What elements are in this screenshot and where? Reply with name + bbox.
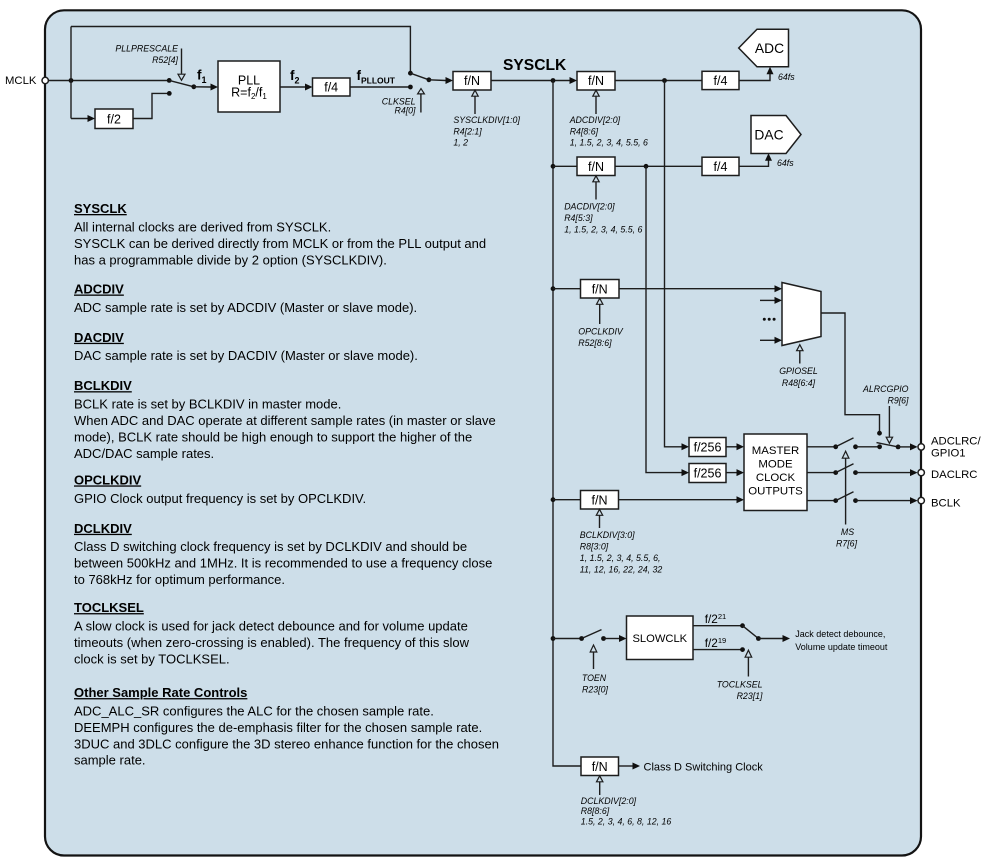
- junction OPCLK trunk tap: [551, 286, 556, 291]
- svg-text:sample rate.: sample rate.: [74, 753, 146, 768]
- wire into f/2: [71, 118, 88, 120]
- svg-text:All internal clocks are derive: All internal clocks are derived from SYS…: [74, 220, 331, 235]
- mux GPIOSEL trapezoid: [782, 283, 821, 346]
- label MS control: [836, 527, 858, 549]
- svg-text:between 500kHz and 1MHz. It is: between 500kHz and 1MHz. It is recommend…: [74, 556, 492, 571]
- junction TOEN trunk tap: [551, 636, 556, 641]
- svg-text:CLOCK: CLOCK: [756, 472, 796, 484]
- wire ADC branch to f/256: [665, 81, 683, 447]
- arrow to BCLK pin: [910, 497, 918, 504]
- wire ADCDIV to f/4: [615, 80, 702, 82]
- svg-text:SYSCLK: SYSCLK: [74, 201, 127, 216]
- svg-text:ALRCGPIO: ALRCGPIO: [862, 384, 909, 394]
- svg-text:TOCLKSEL: TOCLKSEL: [74, 600, 144, 615]
- arrow into f/256 lower: [682, 469, 690, 476]
- svg-text:DACLRC: DACLRC: [931, 469, 977, 481]
- wire trunk to BCLKDIV: [553, 499, 581, 501]
- switch ALRCGPIO lever: [877, 443, 899, 447]
- svg-text:MASTER: MASTER: [752, 445, 799, 457]
- svg-text:MCLK: MCLK: [5, 75, 37, 87]
- control line TOCLKSEL: [747, 657, 749, 676]
- wire trunk to DACDIV: [553, 165, 577, 167]
- svg-text:When ADC and DAC operate at di: When ADC and DAC operate at different sa…: [74, 413, 496, 428]
- svg-text:Class D switching clock freque: Class D switching clock frequency is set…: [74, 539, 467, 554]
- svg-text:ADC: ADC: [755, 41, 784, 56]
- svg-text:1, 1.5, 2, 3, 4, 5.5, 6: 1, 1.5, 2, 3, 4, 5.5, 6: [564, 224, 642, 234]
- control line DACDIV: [595, 182, 597, 200]
- svg-text:GPIO Clock output frequency is: GPIO Clock output frequency is set by OP…: [74, 491, 366, 506]
- arrow into ADCDIV divider: [570, 77, 578, 84]
- control arrow SYSCLKDIV open triangle up: [472, 90, 478, 96]
- node TOEN common: [601, 636, 606, 641]
- arrow into SLOWCLK: [619, 635, 627, 642]
- svg-text:BCLK: BCLK: [931, 498, 961, 510]
- note BCLKDIV body: [74, 397, 496, 461]
- svg-text:f/4: f/4: [714, 74, 728, 88]
- node MS pole DACLRC: [833, 470, 838, 475]
- control line TOEN: [593, 652, 595, 669]
- svg-text:1, 2: 1, 2: [453, 138, 468, 148]
- svg-text:Volume update timeout: Volume update timeout: [795, 642, 888, 652]
- arrow to ADCLRC pin: [910, 443, 918, 450]
- divider ADCDIV f/N: [577, 72, 615, 91]
- node TOCLKSEL pole lower: [740, 647, 745, 652]
- node CLKSEL MCLK pole: [408, 71, 413, 76]
- divider f/2: [95, 109, 133, 129]
- divider f/4 ADC: [702, 71, 739, 89]
- wire DAC branch to f/256: [646, 166, 682, 472]
- divider DACDIV f/N: [577, 157, 615, 176]
- svg-text:DACDIV[2:0]: DACDIV[2:0]: [564, 201, 615, 211]
- wire f/256 upper to master mode: [726, 446, 737, 448]
- arrow into f/256 upper: [682, 443, 690, 450]
- wire f/256 lower to master mode: [726, 472, 737, 474]
- svg-text:f/4: f/4: [324, 81, 338, 95]
- switch TOEN lever: [582, 630, 602, 639]
- wire PLL to f/4: [280, 86, 305, 88]
- wire mux output to ALRCGPIO switch: [821, 313, 880, 432]
- svg-text:R=f2/f1: R=f2/f1: [231, 86, 267, 102]
- arrow f/256 lower: [737, 469, 745, 476]
- node TOCLKSEL pole upper: [740, 623, 745, 628]
- control arrow ADCDIV open triangle up: [593, 90, 599, 96]
- wire SLOWCLK lower output: [693, 649, 743, 651]
- control arrow MS open triangle up: [842, 451, 849, 458]
- wire BCLK to pin: [856, 500, 911, 502]
- arrow jack detect: [783, 635, 791, 642]
- switch TOCLKSEL lever: [743, 626, 759, 639]
- wire BCLK out of master mode: [807, 500, 836, 502]
- svg-text:SLOWCLK: SLOWCLK: [632, 633, 687, 645]
- divider BCLKDIV f/N: [581, 491, 619, 510]
- wire DACDIV to f/4: [615, 165, 702, 167]
- svg-text:OPCLKDIV: OPCLKDIV: [578, 326, 624, 336]
- switch PLLPRESCALE lever: [169, 80, 194, 86]
- svg-text:MODE: MODE: [758, 458, 793, 470]
- node ALRCGPIO common: [896, 445, 901, 450]
- svg-text:GPIOSEL: GPIOSEL: [779, 366, 818, 376]
- svg-text:R4[5:3]: R4[5:3]: [564, 213, 593, 223]
- control line SYSCLKDIV: [474, 96, 476, 114]
- svg-text:Other Sample Rate Controls: Other Sample Rate Controls: [74, 685, 247, 700]
- svg-text:TOEN: TOEN: [582, 673, 607, 683]
- switch MS lever BCLK: [836, 492, 854, 501]
- svg-text:SYSCLK: SYSCLK: [503, 57, 567, 74]
- node CLKSEL common: [427, 77, 432, 82]
- label ALRCGPIO control: [862, 384, 909, 405]
- svg-text:f/4: f/4: [714, 160, 728, 174]
- svg-text:BCLKDIV[3:0]: BCLKDIV[3:0]: [580, 530, 635, 540]
- svg-text:ADC sample rate is set by ADCD: ADC sample rate is set by ADCDIV (Master…: [74, 300, 417, 315]
- label PLLPRESCALE control: [115, 44, 178, 65]
- svg-text:f/N: f/N: [592, 282, 608, 296]
- label CLKSEL control: [382, 96, 416, 115]
- junction MCLK split: [69, 78, 74, 83]
- svg-text:MS: MS: [841, 527, 854, 537]
- svg-text:ADCLRC/: ADCLRC/: [931, 435, 981, 447]
- wire ADCLRC to ALRCGPIO switch: [856, 446, 880, 448]
- arrow f/256 upper: [737, 443, 745, 450]
- svg-text:R23[0]: R23[0]: [582, 684, 608, 694]
- svg-text:f/N: f/N: [592, 760, 608, 774]
- control arrow OPCLKDIV open triangle up: [597, 298, 603, 304]
- label BCLKDIV control: [580, 530, 663, 575]
- arrow into mux input 3: [775, 337, 783, 344]
- svg-text:OUTPUTS: OUTPUTS: [748, 486, 803, 498]
- node GPIO feed: [877, 431, 882, 436]
- wire into PLL: [194, 86, 211, 88]
- wire MCLK input: [49, 80, 170, 82]
- arrow into master mode outputs BCLK: [737, 496, 745, 503]
- svg-text:DEEMPH configures the de-empha: DEEMPH configures the de-emphasis filter…: [74, 720, 482, 735]
- wire mux input 3 stub: [760, 339, 775, 341]
- arrow into PLL: [211, 84, 219, 91]
- svg-text:f/N: f/N: [464, 74, 480, 88]
- divider f/256 upper: [689, 438, 726, 457]
- control arrow DACDIV open triangle up: [593, 176, 599, 182]
- wire SYSCLK trunk: [553, 81, 581, 767]
- node PLLPRESCALE common: [191, 84, 196, 89]
- svg-text:clock is set by TOCLKSEL.: clock is set by TOCLKSEL.: [74, 651, 230, 666]
- svg-text:R7[6]: R7[6]: [836, 538, 858, 548]
- wire TOEN to SLOWCLK: [604, 638, 620, 640]
- control line ADCDIV: [595, 96, 597, 114]
- node DACLRC terminal: [918, 469, 924, 475]
- note SYSCLK body: [74, 220, 486, 268]
- wire to jack detect: [758, 638, 783, 640]
- control arrow TOCLKSEL open triangle up: [745, 650, 752, 657]
- svg-text:ADCDIV: ADCDIV: [74, 282, 124, 297]
- control line PLLPRESCALE: [181, 49, 183, 74]
- svg-text:BCLKDIV: BCLKDIV: [74, 378, 132, 393]
- divider DCLKDIV f/N: [581, 757, 619, 776]
- wire mux input 2 stub: [760, 299, 775, 301]
- wire DACLRC to pin: [856, 472, 911, 474]
- wire f/4 to DAC converter: [739, 160, 769, 167]
- svg-text:SYSCLKDIV[1:0]: SYSCLKDIV[1:0]: [453, 115, 520, 125]
- arrow into mux input 2: [775, 297, 783, 304]
- arrow into SYSCLKDIV divider: [446, 77, 454, 84]
- node TOCLKSEL common: [756, 636, 761, 641]
- junction ADC branch: [662, 78, 667, 83]
- svg-text:R52[4]: R52[4]: [152, 55, 178, 65]
- junction DAC branch: [644, 164, 649, 169]
- control arrow DCLKDIV open triangle up: [597, 776, 603, 782]
- arrow into f/2: [88, 115, 96, 122]
- svg-text:1.5, 2, 3, 4, 6, 8, 12, 16: 1.5, 2, 3, 4, 6, 8, 12, 16: [581, 817, 672, 827]
- svg-text:BCLK rate is set by BCLKDIV in: BCLK rate is set by BCLKDIV in master mo…: [74, 397, 341, 412]
- svg-text:GPIO1: GPIO1: [931, 448, 966, 460]
- svg-text:OPCLKDIV: OPCLKDIV: [74, 472, 142, 487]
- arrow into f/4: [305, 84, 313, 91]
- block PLL: [218, 61, 280, 112]
- svg-text:R23[1]: R23[1]: [737, 691, 763, 701]
- svg-text:mode), BCLK rate should be hig: mode), BCLK rate should be high enough t…: [74, 429, 472, 444]
- node BCLK after switch: [853, 498, 858, 503]
- control arrow BCLKDIV open triangle up: [596, 509, 602, 515]
- wire MCLK branch vertical: [70, 27, 72, 119]
- node MS pole ADCLRC: [833, 444, 838, 449]
- node ADCLRC/GPIO1 terminal: [918, 444, 924, 450]
- svg-text:to 768kHz for optimum performa: to 768kHz for optimum performance.: [74, 572, 285, 587]
- svg-text:1, 1.5, 2, 3, 4, 5.5, 6,: 1, 1.5, 2, 3, 4, 5.5, 6,: [580, 553, 661, 563]
- block DAC converter: [751, 116, 801, 154]
- wire SLOWCLK upper output: [693, 625, 743, 627]
- label TOCLKSEL control: [717, 679, 763, 701]
- wire CLKSEL to SYSCLKDIV divider: [429, 79, 446, 82]
- label ADCLRC/GPIO1 pin: [931, 435, 981, 459]
- svg-text:timeouts (when zero-crossing i: timeouts (when zero-crossing is enabled)…: [74, 635, 470, 650]
- label OPCLKDIV control: [578, 326, 624, 348]
- arrow up into DAC: [765, 153, 772, 161]
- wire f/4 to CLKSEL switch: [350, 86, 410, 88]
- svg-text:DAC: DAC: [754, 127, 783, 142]
- svg-text:ADCDIV[2:0]: ADCDIV[2:0]: [569, 115, 621, 125]
- control arrow PLLPRESCALE open triangle down: [178, 74, 185, 80]
- node MS pole BCLK: [833, 498, 838, 503]
- divider f/4 DAC: [702, 157, 739, 175]
- svg-text:64fs: 64fs: [777, 158, 794, 168]
- svg-text:f/N: f/N: [588, 74, 604, 88]
- node DACLRC after switch: [853, 470, 858, 475]
- svg-text:R48[6:4]: R48[6:4]: [782, 378, 816, 388]
- wire OPCLKDIV to GPIO mux: [619, 288, 775, 290]
- switch MS lever ADCLRC: [836, 438, 854, 447]
- wire DCLKDIV output: [619, 765, 634, 767]
- svg-text:TOCLKSEL: TOCLKSEL: [717, 679, 763, 689]
- wire ADCLRC out of master mode: [807, 446, 836, 448]
- label DCLKDIV control: [581, 796, 672, 827]
- svg-text:11, 12, 16, 22, 24, 32: 11, 12, 16, 22, 24, 32: [580, 565, 663, 575]
- note TOCLKSEL body: [74, 619, 470, 667]
- svg-text:R4[0]: R4[0]: [394, 105, 416, 115]
- control line GPIOSEL: [799, 351, 801, 364]
- arrow up into ADC: [767, 67, 774, 75]
- control line OPCLKDIV: [599, 304, 601, 324]
- node MCLK input terminal: [42, 77, 48, 83]
- wire trunk to TOEN switch: [553, 638, 582, 640]
- wire DACLRC out of master mode: [807, 472, 836, 474]
- control arrow ALRCGPIO open triangle down: [886, 437, 892, 443]
- control line ALRCGPIO: [888, 406, 890, 437]
- svg-text:PLLPRESCALE: PLLPRESCALE: [115, 44, 178, 54]
- junction SYSCLK trunk top: [551, 78, 556, 83]
- wire f/2 output: [133, 93, 168, 118]
- arrow to DACLRC pin: [910, 469, 918, 476]
- control line DCLKDIV: [599, 782, 601, 795]
- node TOEN pole: [579, 636, 584, 641]
- svg-text:R4[8:6]: R4[8:6]: [570, 126, 599, 136]
- svg-text:DACDIV: DACDIV: [74, 330, 124, 345]
- arrow class D clock: [633, 763, 641, 770]
- node ADCLRC after switch: [853, 444, 858, 449]
- node f/2 output pole: [167, 91, 172, 96]
- svg-text:has a programmable divide by 2: has a programmable divide by 2 option (S…: [74, 252, 387, 267]
- divider f/4 PLL output: [313, 78, 351, 96]
- wire SYSCLKDIV to ADCDIV divider: [491, 80, 570, 82]
- svg-text:R8[3:0]: R8[3:0]: [580, 542, 609, 552]
- wire f/4 to ADC converter: [739, 73, 770, 81]
- junction BCLK trunk tap: [551, 497, 556, 502]
- svg-text:R52[8:6]: R52[8:6]: [578, 338, 612, 348]
- note DCLKDIV body: [74, 539, 492, 587]
- control line CLKSEL: [420, 94, 422, 113]
- mux ellipsis: [763, 318, 776, 321]
- svg-text:Jack detect debounce,: Jack detect debounce,: [795, 629, 885, 639]
- label GPIOSEL control: [779, 366, 818, 388]
- wire ADCLRC to pin: [898, 446, 910, 448]
- control arrow TOEN open triangle up: [590, 645, 597, 652]
- control line MS: [845, 458, 847, 524]
- svg-text:R4[2:1]: R4[2:1]: [453, 126, 482, 136]
- svg-text:DCLKDIV: DCLKDIV: [74, 521, 132, 536]
- block MASTER MODE CLOCK OUTPUTS: [744, 434, 807, 511]
- control arrow CLKSEL open triangle up: [418, 89, 425, 94]
- label TOEN control: [582, 673, 609, 695]
- control arrow GPIOSEL open triangle up: [797, 345, 803, 351]
- wire MCLK feedback to CLKSEL: [71, 27, 410, 74]
- svg-text:f/N: f/N: [592, 493, 608, 507]
- svg-text:DAC sample rate is set by DACD: DAC sample rate is set by DACDIV (Master…: [74, 348, 418, 363]
- label DACDIV control: [564, 201, 642, 234]
- label jack detect debounce: [795, 629, 888, 652]
- divider f/256 lower: [689, 464, 726, 483]
- svg-text:R8[8:6]: R8[8:6]: [581, 806, 610, 816]
- svg-text:A slow clock is used for jack: A slow clock is used for jack detect deb…: [74, 619, 468, 634]
- svg-text:Class D Switching Clock: Class D Switching Clock: [644, 761, 764, 773]
- block SLOWCLK: [627, 616, 694, 660]
- note Other body: [74, 704, 499, 768]
- label ADCDIV control: [569, 115, 648, 148]
- svg-text:SYSCLK can be derived directly: SYSCLK can be derived directly from MCLK…: [74, 236, 486, 251]
- switch CLKSEL lever: [410, 73, 429, 80]
- svg-text:f/2: f/2: [107, 112, 121, 126]
- junction DAC trunk tap: [551, 164, 556, 169]
- divider SYSCLKDIV f/N: [453, 72, 491, 91]
- block ADC converter: [739, 29, 789, 67]
- node ALRCGPIO pole: [877, 444, 882, 449]
- label SYSCLKDIV control: [453, 115, 520, 148]
- svg-text:3DUC and 3DLC configure the 3D: 3DUC and 3DLC configure the 3D stereo en…: [74, 736, 499, 751]
- node CLKSEL PLL pole: [408, 85, 413, 90]
- svg-text:DCLKDIV[2:0]: DCLKDIV[2:0]: [581, 796, 637, 806]
- wire BCLKDIV to master mode outputs: [619, 499, 738, 501]
- svg-text:f/N: f/N: [588, 160, 604, 174]
- svg-text:f/256: f/256: [694, 441, 722, 455]
- svg-text:ADC/DAC sample rates.: ADC/DAC sample rates.: [74, 446, 214, 461]
- svg-text:R9[6]: R9[6]: [887, 396, 909, 406]
- svg-text:1, 1.5, 2, 3, 4, 5.5, 6: 1, 1.5, 2, 3, 4, 5.5, 6: [570, 138, 648, 148]
- node BCLK terminal: [918, 497, 924, 503]
- control line BCLKDIV: [599, 515, 601, 528]
- node MCLK direct pole: [167, 78, 172, 83]
- svg-text:64fs: 64fs: [778, 72, 795, 82]
- arrow into mux input 1: [775, 285, 783, 292]
- wire trunk to OPCLKDIV: [553, 288, 581, 290]
- divider OPCLKDIV f/N: [581, 280, 620, 299]
- svg-text:ADC_ALC_SR configures the ALC: ADC_ALC_SR configures the ALC for the ch…: [74, 704, 434, 719]
- svg-text:f/256: f/256: [694, 466, 722, 480]
- switch MS lever DACLRC: [836, 464, 854, 473]
